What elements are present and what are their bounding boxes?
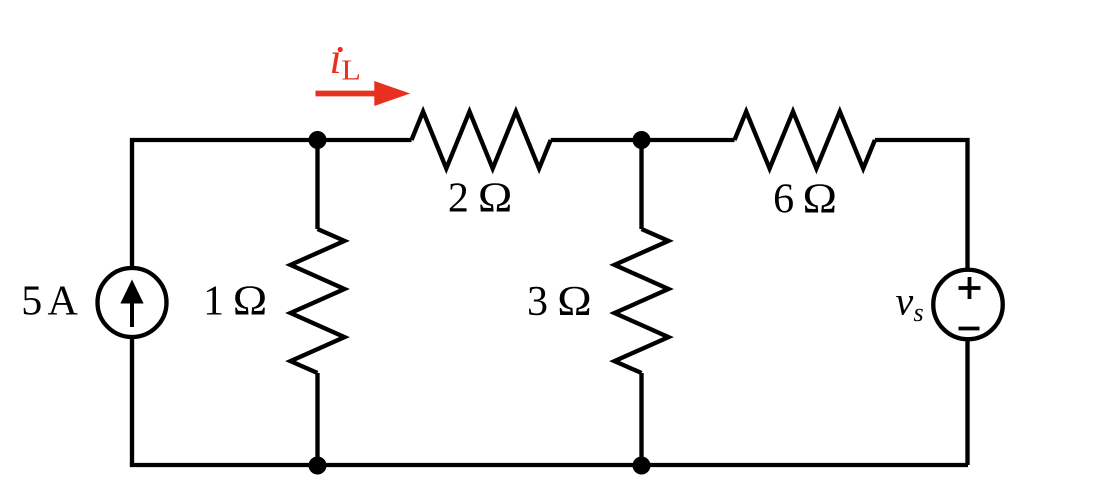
node A junction dot (top left) <box>309 131 327 149</box>
svg-text:ı: ı <box>330 34 342 83</box>
wire left-bottom segment (below current source to bottom-left corner to node C) <box>132 337 968 465</box>
svg-text:s: s <box>914 298 924 327</box>
wire node B down to 3-ohm resistor <box>639 140 643 229</box>
svg-text:Ω: Ω <box>557 279 592 325</box>
wire node A down to 1-ohm resistor <box>315 140 319 229</box>
svg-text:A: A <box>48 279 79 325</box>
resistor R 6-ohm (horizontal zigzag) <box>735 112 875 169</box>
svg-text:5: 5 <box>21 279 42 325</box>
resistor R 3-ohm (vertical zigzag) <box>615 229 669 373</box>
wire top between 2ohm and node B <box>551 138 735 142</box>
svg-text:1: 1 <box>203 279 224 325</box>
svg-text:6: 6 <box>773 177 794 223</box>
wire top-right corner down to voltage source <box>875 140 968 270</box>
svg-text:Ω: Ω <box>233 279 268 325</box>
svg-text:L: L <box>341 54 361 86</box>
wire 3-ohm resistor to bottom node <box>639 373 643 465</box>
svg-text:Ω: Ω <box>478 176 513 222</box>
node D junction dot (bottom middle) <box>633 457 651 475</box>
current source I1 circle <box>98 268 167 337</box>
wire top-left segment (node A to top-left corner and down) <box>132 140 412 268</box>
voltage source Vs circle <box>933 270 1003 340</box>
voltage source plus sign <box>959 286 981 290</box>
svg-text:Ω: Ω <box>803 177 838 223</box>
current arrow iL (red) <box>316 91 377 97</box>
svg-text:2: 2 <box>448 176 469 222</box>
voltage source minus sign <box>959 327 980 331</box>
node B junction dot (top middle) <box>633 131 651 149</box>
node C junction dot (bottom left) <box>309 457 327 475</box>
resistor R 2-ohm (horizontal zigzag) <box>412 112 551 169</box>
svg-text:v: v <box>896 279 914 324</box>
wire below voltage source <box>965 339 969 465</box>
resistor R 1-ohm (vertical zigzag) <box>291 229 345 373</box>
current source I1 arrow <box>130 301 134 327</box>
svg-text:3: 3 <box>527 279 548 325</box>
wire 1-ohm resistor to bottom node <box>315 373 319 465</box>
